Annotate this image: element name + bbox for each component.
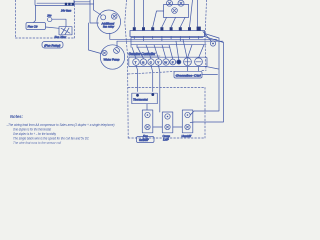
wire: relay R1 bottom stub: [109, 33, 111, 39]
svg-text:Fan Xfmr: Fan Xfmr: [55, 35, 68, 39]
paper background: [0, 0, 235, 150]
relay R1 circle: additional fan relay: [97, 10, 121, 34]
wire vertical into relay R1: [90, 0, 99, 23]
pump M1 circle: water pump: [100, 45, 124, 69]
junction node J1: [210, 41, 215, 46]
svg-text:W: W: [164, 60, 167, 64]
svg-text:Notes:: Notes:: [10, 114, 24, 119]
comp lamp block: [162, 112, 173, 133]
wire right loop inner: [194, 37, 224, 123]
wire between fan and comp blocks: [153, 126, 163, 128]
gas valve terminal P2: [178, 0, 184, 6]
wire thermostat to fan block: [146, 104, 148, 110]
svg-text:–The wiring lead from AA compr: –The wiring lead from AA compressor to S…: [6, 123, 115, 127]
wire controller W to comp block: [159, 65, 160, 112]
svg-text:Genuine Controller: Genuine Controller: [129, 52, 157, 56]
label: (Fan Relay): [42, 42, 63, 49]
wire feeds to controller: [132, 45, 173, 59]
strip stubs down: [134, 37, 198, 42]
transformer T1: [59, 27, 72, 35]
fan lamp block: [142, 110, 153, 133]
wire strip t2 up: [143, 0, 145, 27]
controller terminal F: [170, 59, 176, 65]
wire right bus 2: [197, 0, 199, 27]
controller terminal Y: [155, 59, 161, 65]
svg-text:24v fans: 24v fans: [60, 8, 72, 12]
svg-text:fan relay: fan relay: [103, 25, 115, 29]
controller terminal D (dark): [177, 60, 181, 64]
gas valve terminal P3: [172, 8, 178, 14]
terminal strip screws: [133, 27, 201, 31]
svg-text:Fan Ctr: Fan Ctr: [28, 25, 39, 29]
wire gas valve bottom 3: [180, 18, 185, 28]
wire run D above controller: [131, 44, 206, 46]
wire run A below strip: [131, 37, 203, 39]
svg-text:T: T: [135, 60, 137, 64]
svg-text:24v: 24v: [46, 13, 52, 17]
run end verticals: [131, 38, 137, 48]
wire controller minus down right: [205, 66, 219, 69]
controller terminal minus: [195, 58, 203, 66]
svg-text:LMP: LMP: [163, 138, 169, 142]
notes heading: [6, 114, 115, 145]
controller terminal plus: [184, 58, 192, 66]
svg-text:(Fan Relay): (Fan Relay): [44, 44, 60, 48]
svg-text:The wire that runs to the sens: The wire that runs to the sensor coil: [13, 141, 61, 145]
label: Genuine Controller: [129, 52, 161, 56]
controller U1 box: [129, 57, 207, 66]
wire: pump right terminal up: [116, 41, 118, 48]
dashed enclosure: bottom box: [128, 88, 205, 139]
svg-text:Y: Y: [157, 60, 159, 64]
terminal strip TB1: [130, 31, 205, 37]
controller terminal G: [140, 59, 146, 65]
controller terminal C: [148, 59, 154, 65]
pilot lamp: [48, 17, 52, 21]
wire gas valve bottom 2: [171, 18, 175, 28]
dashed enclosure: furnace box: [125, 0, 207, 138]
wire relay K1 down to fan center label: [34, 6, 36, 23]
wire bus 2: [94, 0, 102, 15]
gas valve terminal P1: [167, 0, 173, 6]
label box: Fan Center: [26, 23, 46, 30]
wire humidifier top to loop: [190, 111, 194, 115]
wire label to right bus: [202, 74, 218, 76]
wire pilot lamp to transformer: [52, 19, 66, 27]
thermostat box: [132, 93, 158, 104]
wire right loop outer: [194, 34, 219, 112]
relay K1 (top rect in fan-center box): [35, 0, 74, 6]
gas valve box: [164, 5, 189, 18]
wire controller plus down: [188, 67, 199, 72]
thermostat terminal dots: [136, 93, 154, 97]
relay K1 terminals: [65, 3, 74, 6]
humidifier block: [182, 110, 193, 133]
controller terminal W: [163, 59, 169, 65]
wire run B below strip: [110, 38, 217, 40]
svg-text:Humidif: Humidif: [182, 134, 193, 138]
svg-text:One duplex is for the thermost: One duplex is for the thermostat: [13, 128, 52, 132]
label under controller: [174, 71, 202, 78]
wire down to pump: [89, 23, 102, 54]
label: Grilles: [137, 137, 155, 143]
wire controller G to thermostat 1: [136, 65, 138, 91]
svg-text:Grilles: Grilles: [139, 138, 148, 142]
wire strip t1 up: [133, 0, 135, 27]
svg-text:F: F: [172, 60, 174, 64]
svg-text:One duplex is for + – for the: One duplex is for + – for the humidity: [13, 132, 56, 136]
wire slant feeds: [176, 39, 204, 60]
svg-text:Water Pump: Water Pump: [104, 58, 120, 62]
wire from relay K1 right to vertical bus: [74, 2, 94, 4]
wire right bus 1: [190, 0, 193, 27]
wire fan center label to transformer: [46, 27, 60, 28]
wire gas valve notch to strip: [153, 11, 164, 27]
controller terminal T: [133, 59, 140, 66]
wire run C below strip: [117, 40, 223, 42]
wire strip right to J1: [203, 32, 212, 42]
wire run E above controller: [137, 46, 170, 48]
svg-text:Thermostat: Thermostat: [133, 98, 148, 102]
dashed enclosure: fan center box: [16, 0, 75, 38]
wire gas valve bottom 1: [162, 18, 167, 28]
svg-text:Genuine Ctrl: Genuine Ctrl: [176, 73, 201, 77]
wire controller Y to thermostat 2: [151, 65, 153, 91]
wire humidifier bottom to loop: [190, 121, 194, 124]
wire between comp and humidifier blocks: [173, 126, 183, 128]
